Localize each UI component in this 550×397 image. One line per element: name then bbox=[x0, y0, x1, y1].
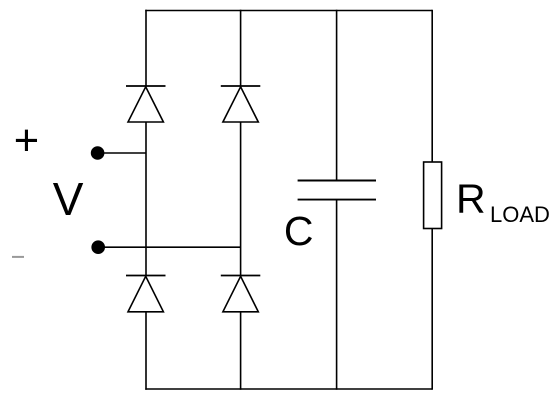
label minus bbox=[12, 256, 24, 258]
wire left leg lower bbox=[145, 312, 147, 390]
diode D2 bbox=[221, 86, 260, 122]
diode D3 bbox=[126, 276, 166, 312]
diode D1 bbox=[126, 86, 166, 122]
capacitor C bbox=[298, 181, 376, 200]
node plus input terminal bbox=[91, 146, 105, 160]
wire left leg upper bbox=[145, 10, 147, 86]
resistor R_LOAD bbox=[424, 162, 442, 229]
svg-text:+: + bbox=[14, 117, 39, 165]
wire right bridge leg upper bbox=[240, 10, 242, 86]
svg-text:R: R bbox=[456, 176, 486, 222]
svg-text:V: V bbox=[53, 173, 84, 225]
diode D4 bbox=[221, 276, 260, 312]
wire left leg middle bbox=[145, 122, 147, 276]
svg-text:C: C bbox=[284, 208, 314, 254]
wire resistor leg lower bbox=[431, 229, 433, 390]
wire resistor leg upper bbox=[431, 10, 433, 162]
wire right bridge leg middle bbox=[240, 122, 242, 276]
wire capacitor leg upper bbox=[336, 10, 338, 181]
wire capacitor leg lower bbox=[336, 200, 338, 390]
wire bottom rail bbox=[145, 388, 432, 390]
wire top rail bbox=[145, 10, 432, 12]
wire right bridge leg lower bbox=[240, 312, 242, 390]
node minus input terminal bbox=[91, 240, 105, 254]
wire minus input bbox=[98, 246, 240, 248]
svg-text:LOAD: LOAD bbox=[490, 202, 550, 227]
wire plus input bbox=[98, 152, 146, 154]
